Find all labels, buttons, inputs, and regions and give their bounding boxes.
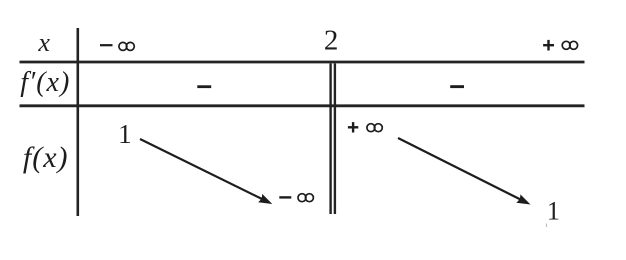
svg-text:f′(x): f′(x) [20,67,70,98]
minus sign of -infinity limit (left interval bottom) [279,196,291,198]
decreasing arrow right interval [398,138,531,205]
infinity symbol of +infinity limit (right interval top) [367,124,382,132]
infinity symbol of -infinity (x row left) [119,42,134,50]
decreasing arrow left interval [140,139,272,204]
infinity symbol of -infinity limit (left interval bottom) [298,194,313,202]
plus sign of +infinity (x row right) [543,40,554,51]
table horizontal line top (below x row) [20,61,585,64]
double vertical line at x=2, left bar [329,64,331,215]
minus sign of f'(x) right interval [450,85,464,88]
svg-text:1: 1 [118,119,132,149]
minus sign of -infinity (x row left) [100,44,113,46]
table horizontal line bottom (below f'(x) row) [20,104,585,107]
svg-text:1: 1 [547,197,560,226]
table main vertical line [77,28,80,216]
small scan artifact below right 1 [545,224,547,228]
svg-text:2: 2 [324,24,339,56]
svg-text:x: x [37,28,50,57]
svg-text:f(x): f(x) [23,141,69,174]
infinity symbol of +infinity (x row right) [562,41,577,49]
double vertical line at x=2, right bar [334,64,336,215]
plus sign of +infinity limit (right interval top) [348,122,358,132]
minus sign of f'(x) left interval [197,85,211,88]
